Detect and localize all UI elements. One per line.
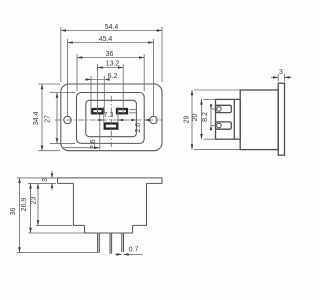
slot top-right bbox=[117, 109, 127, 113]
svg-text:8.2: 8.2 bbox=[202, 112, 209, 122]
svg-text:0.7: 0.7 bbox=[129, 247, 139, 254]
dimension 27 bbox=[45, 93, 76, 144]
pin right bbox=[122, 233, 124, 252]
svg-text:6.2: 6.2 bbox=[108, 73, 118, 80]
svg-text:27: 27 bbox=[45, 115, 52, 123]
svg-text:45.4: 45.4 bbox=[99, 36, 113, 43]
svg-text:26.9: 26.9 bbox=[21, 198, 28, 212]
dimension 45.4 bbox=[68, 36, 154, 117]
dimension 7.3 bbox=[97, 112, 125, 121]
dimension 20 bbox=[192, 99, 216, 139]
dimension 2.6 bottom bbox=[62, 115, 100, 150]
dimension 3 flange thickness bbox=[271, 69, 292, 81]
svg-text:2.6: 2.6 bbox=[90, 139, 97, 149]
dimension 13.2 bbox=[98, 61, 124, 115]
housing step line bbox=[233, 99, 235, 139]
terminal top hole bbox=[217, 107, 222, 112]
svg-text:3: 3 bbox=[42, 178, 49, 182]
flange plate bbox=[278, 83, 284, 155]
mounting hole right bbox=[150, 116, 157, 123]
mounting hole left bbox=[64, 116, 71, 123]
svg-text:23: 23 bbox=[30, 197, 37, 205]
svg-text:3: 3 bbox=[279, 69, 283, 76]
pin middle bbox=[110, 233, 112, 254]
pin left bbox=[98, 233, 100, 252]
bottom slot edge extension lines bbox=[103, 107, 105, 124]
centerline vertical bbox=[110, 96, 112, 147]
dimension 29 bbox=[183, 90, 240, 150]
terminal bottom hole bbox=[217, 123, 222, 128]
svg-text:54.4: 54.4 bbox=[105, 24, 119, 31]
terminal bottom bbox=[216, 122, 232, 129]
slot top-left bbox=[92, 109, 103, 113]
terminal top bbox=[216, 105, 232, 112]
flange bar bbox=[58, 178, 163, 184]
dimension 0.7 pin thickness bbox=[115, 247, 143, 256]
flange outline bbox=[61, 84, 162, 151]
dimension 3 bottom flange thickness bbox=[42, 171, 58, 190]
terminal housing bbox=[216, 99, 241, 139]
body bbox=[240, 90, 278, 150]
dimension 34.4 bbox=[33, 84, 60, 151]
dimension 6.2 bbox=[85, 73, 117, 115]
mounting plate bbox=[85, 225, 133, 233]
slot bottom-center bbox=[105, 124, 118, 129]
svg-text:20: 20 bbox=[192, 114, 199, 122]
dimension 26.9 bbox=[21, 183, 84, 233]
dimension 54.4 bbox=[61, 24, 162, 82]
recess outline bbox=[86, 100, 137, 136]
svg-text:36: 36 bbox=[106, 51, 114, 58]
svg-text:7.3: 7.3 bbox=[104, 112, 114, 119]
dimension 36 bbox=[10, 178, 99, 253]
body outline bbox=[73, 183, 146, 225]
dimension 2.6 right bbox=[131, 119, 149, 133]
dimension 23 bbox=[30, 183, 72, 225]
svg-text:29: 29 bbox=[183, 116, 190, 124]
centerline horizontal bbox=[55, 119, 162, 121]
dimension 8.2 bbox=[202, 104, 217, 131]
svg-text:2.6: 2.6 bbox=[135, 123, 142, 133]
face outline bbox=[77, 93, 145, 144]
dimension 36 bbox=[77, 51, 144, 91]
svg-text:13.2: 13.2 bbox=[106, 61, 120, 68]
svg-text:36: 36 bbox=[10, 208, 17, 216]
slot edge projection lines bbox=[129, 109, 137, 111]
svg-text:34.4: 34.4 bbox=[33, 111, 40, 125]
